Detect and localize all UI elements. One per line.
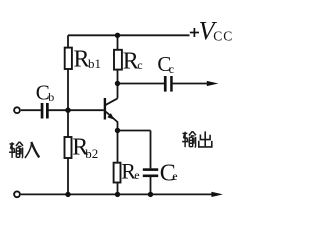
wire output tap left bbox=[118, 83, 165, 85]
arrowhead bottom rail bbox=[211, 192, 223, 197]
transistor Q1 base bar bbox=[104, 98, 106, 120]
wire output tap right bbox=[173, 83, 210, 85]
svg-text:c: c bbox=[169, 62, 174, 76]
wire base input segment bbox=[21, 109, 41, 111]
wire Ce bottom bbox=[150, 177, 152, 194]
wire left vertical (Rb1/Rb2 branch) bbox=[67, 35, 69, 194]
svg-text:b: b bbox=[48, 90, 54, 104]
wire collector diagonal bbox=[106, 98, 118, 105]
resistor Rb2 bbox=[65, 137, 72, 158]
svg-text:c: c bbox=[137, 58, 142, 72]
node top rail / Rc junction bbox=[115, 33, 120, 38]
capacitor Cc plates bbox=[164, 76, 173, 92]
wire base to transistor bbox=[49, 109, 104, 111]
wire Re bottom bbox=[117, 182, 119, 194]
svg-text:CC: CC bbox=[213, 29, 233, 44]
wire top supply rail bbox=[68, 34, 190, 36]
label +VCC plus sign bbox=[190, 28, 199, 37]
wire emitter diagonal bbox=[106, 112, 118, 122]
svg-text:b2: b2 bbox=[85, 146, 98, 161]
capacitor Ce plates bbox=[143, 168, 158, 177]
arrowhead output bbox=[207, 81, 219, 86]
node base junction bbox=[65, 108, 70, 113]
wire emitter branch horizontal bbox=[118, 130, 151, 132]
svg-text:e: e bbox=[172, 169, 177, 183]
resistor Rb1 bbox=[65, 48, 72, 69]
node Ce / bottom rail bbox=[148, 192, 153, 197]
transistor Q1 emitter arrow bbox=[107, 113, 114, 120]
wire Ce top bbox=[150, 131, 152, 169]
wire bottom rail bbox=[21, 193, 213, 195]
resistor Re bbox=[114, 163, 121, 183]
label input (Chinese 输入) bbox=[9, 142, 39, 158]
input terminal bottom bbox=[14, 191, 20, 197]
capacitor Cb plates bbox=[41, 103, 49, 119]
node Rb2 / bottom rail bbox=[65, 192, 70, 197]
wire emitter vertical to Re bbox=[117, 122, 119, 163]
resistor Rc bbox=[114, 50, 122, 70]
node emitter junction bbox=[115, 128, 120, 133]
label output (Chinese 输出) bbox=[182, 131, 212, 147]
wire Rc bottom to collector bbox=[117, 70, 119, 99]
node collector / output junction bbox=[115, 81, 120, 86]
input terminal top bbox=[14, 107, 20, 113]
node Re / bottom rail bbox=[115, 192, 120, 197]
svg-text:b1: b1 bbox=[88, 56, 101, 71]
svg-text:e: e bbox=[134, 168, 139, 182]
wire Rc top bbox=[117, 35, 119, 50]
